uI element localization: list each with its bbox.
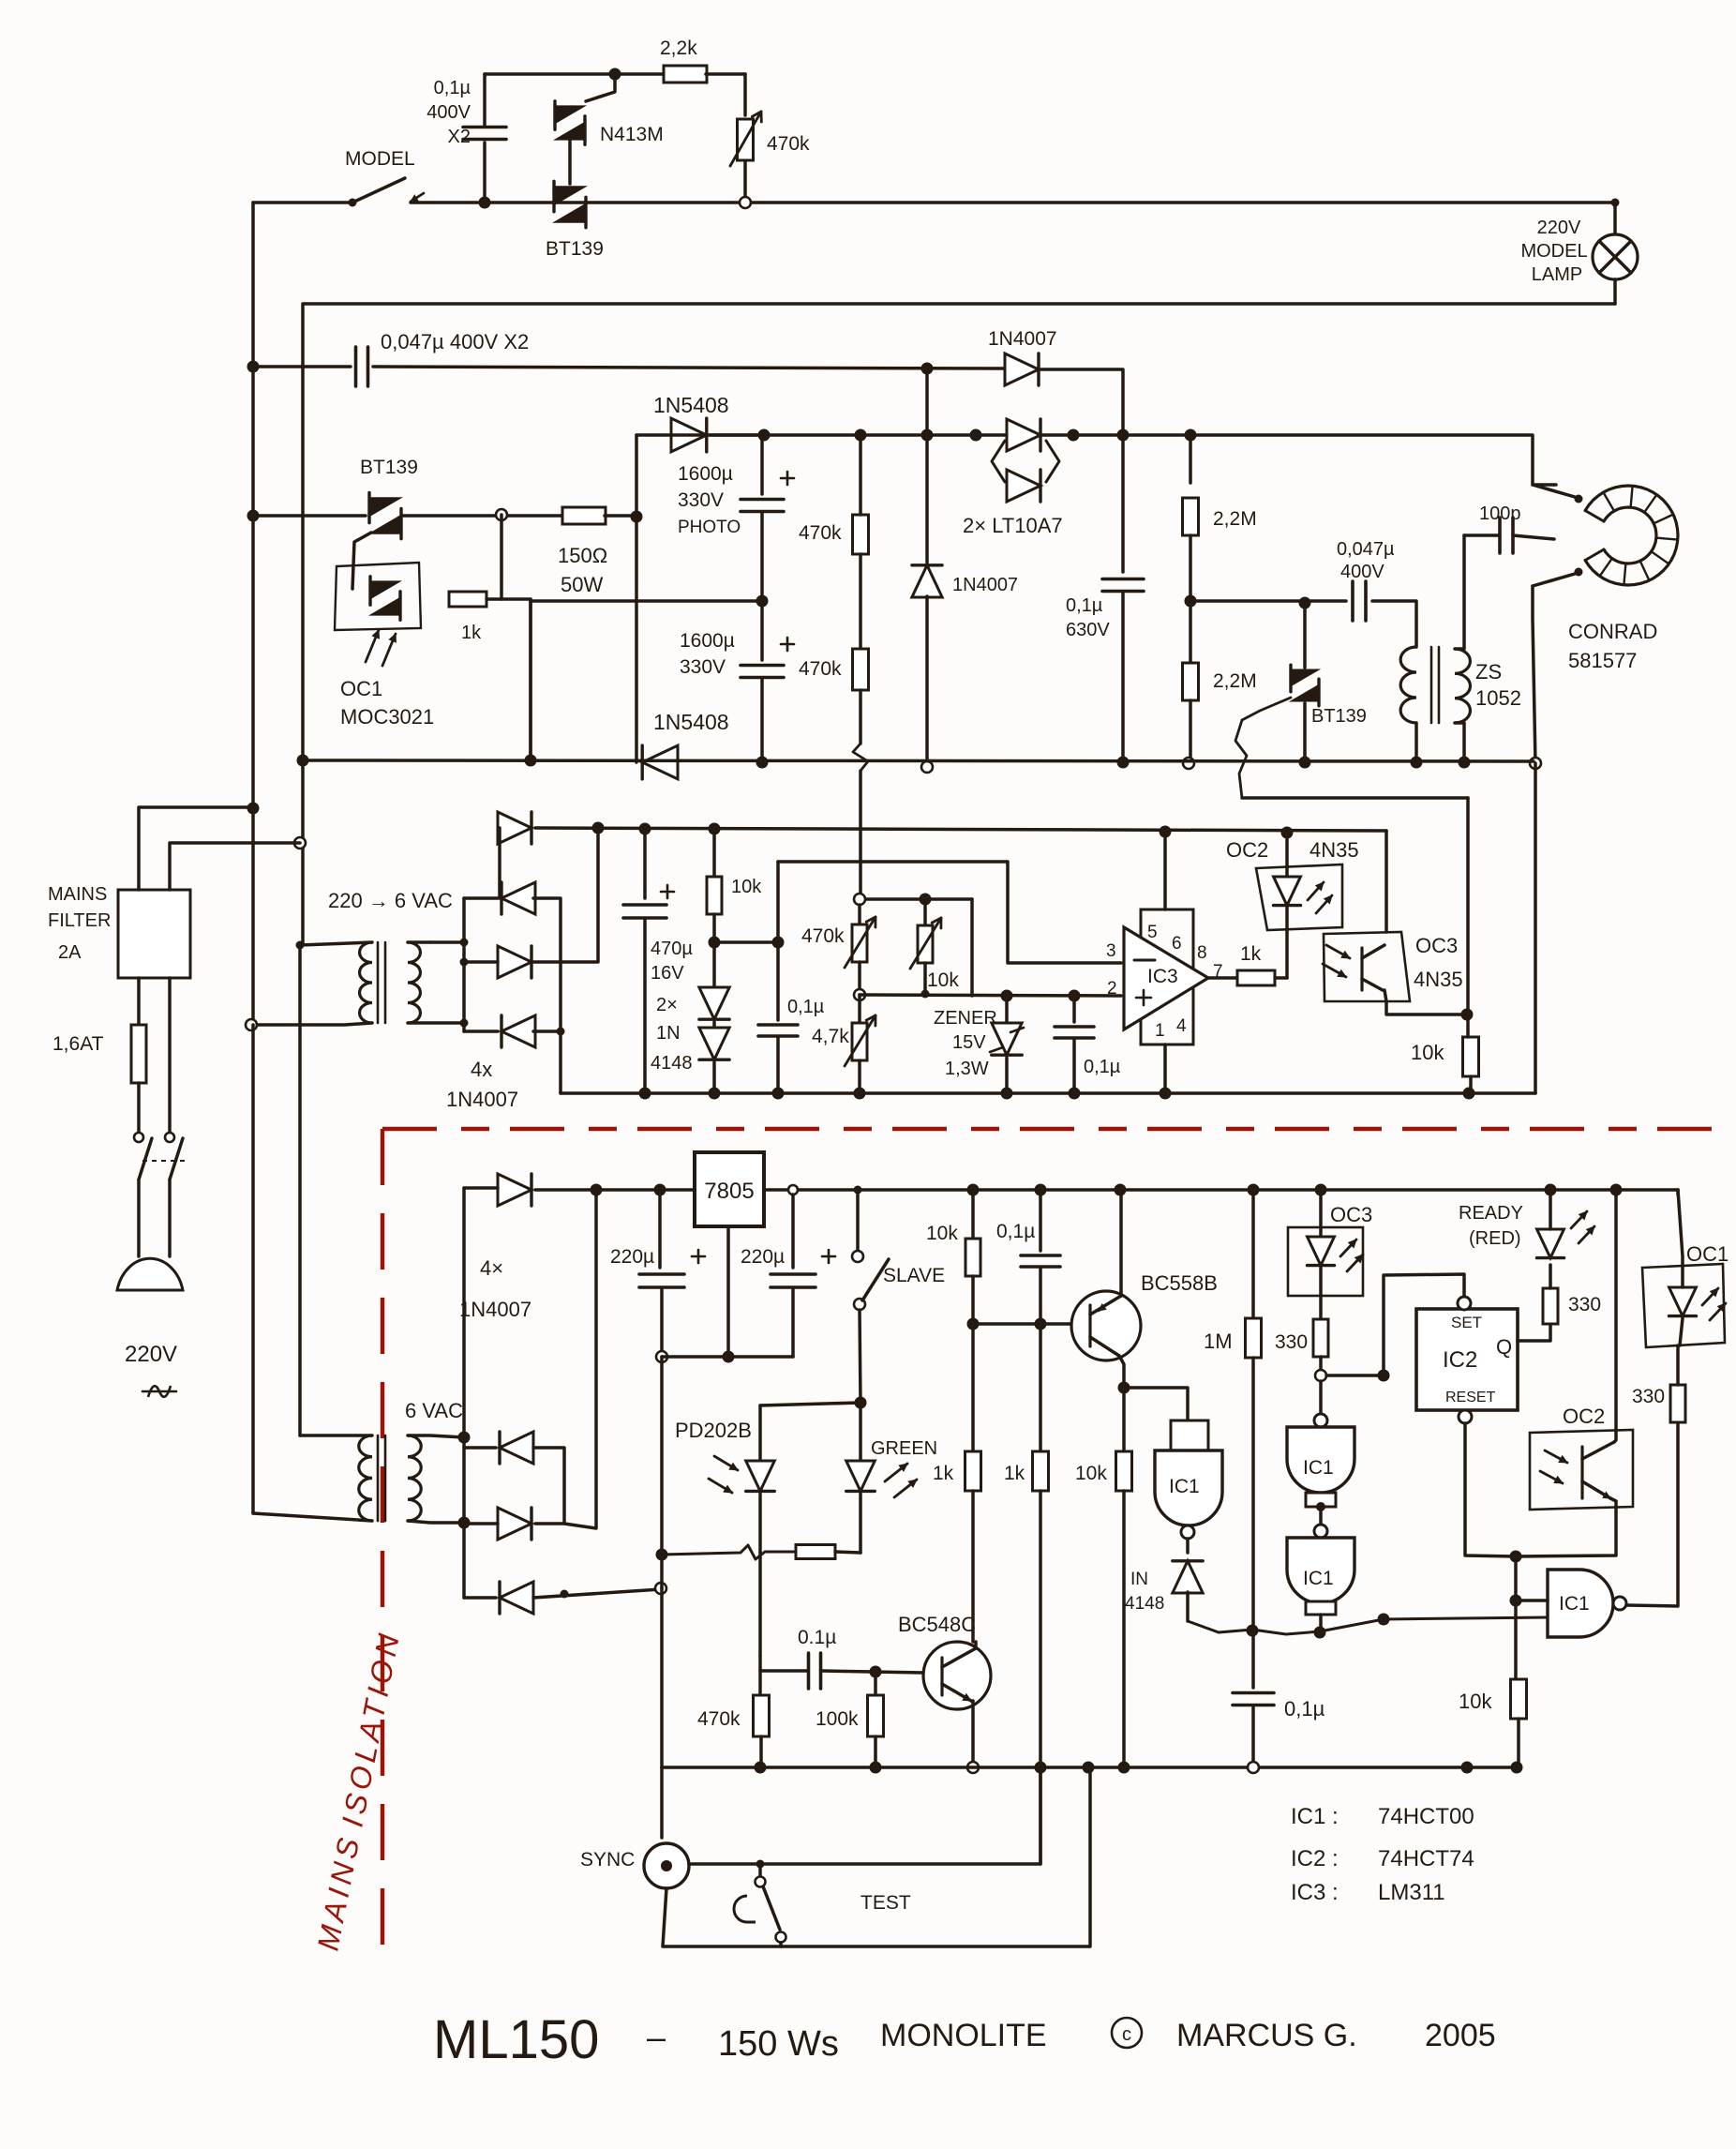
svg-text:630V: 630V	[1066, 620, 1110, 640]
svg-text:OC3: OC3	[1415, 934, 1458, 957]
svg-text:IC1: IC1	[1169, 1476, 1200, 1497]
svg-text:IC1: IC1	[1303, 1568, 1334, 1589]
svg-text:2× LT10A7: 2× LT10A7	[963, 514, 1063, 537]
svg-text:4148: 4148	[1125, 1594, 1164, 1614]
svg-text:X2: X2	[448, 127, 471, 147]
svg-text:1052: 1052	[1475, 686, 1521, 710]
svg-text:MARCUS G.: MARCUS G.	[1176, 2018, 1357, 2053]
svg-text:220V: 220V	[1537, 218, 1581, 238]
svg-text:2,2M: 2,2M	[1213, 670, 1257, 692]
svg-text:Q: Q	[1496, 1335, 1512, 1359]
svg-text:IC3 :: IC3 :	[1291, 1880, 1339, 1905]
svg-text:8: 8	[1197, 943, 1207, 963]
svg-text:330: 330	[1568, 1294, 1601, 1315]
svg-text:IC1: IC1	[1559, 1593, 1590, 1615]
svg-text:1,3W: 1,3W	[945, 1059, 989, 1079]
svg-text:0,1µ: 0,1µ	[1084, 1057, 1121, 1077]
svg-text:470k: 470k	[799, 658, 842, 680]
svg-text:10k: 10k	[927, 969, 959, 991]
svg-text:1N4007: 1N4007	[952, 575, 1018, 595]
svg-text:4: 4	[1176, 1016, 1187, 1036]
svg-text:15V: 15V	[952, 1032, 986, 1053]
svg-text:10k: 10k	[926, 1223, 958, 1244]
svg-text:4x: 4x	[471, 1058, 492, 1081]
svg-text:330: 330	[1632, 1386, 1665, 1407]
svg-text:3: 3	[1106, 941, 1116, 961]
svg-text:150Ω: 150Ω	[558, 544, 607, 567]
svg-text:0,1µ: 0,1µ	[787, 997, 825, 1017]
svg-text:1600µ: 1600µ	[678, 463, 733, 485]
svg-text:10k: 10k	[1075, 1463, 1107, 1484]
svg-text:5: 5	[1147, 923, 1158, 942]
svg-text:BT139: BT139	[1311, 706, 1367, 727]
svg-text:PHOTO: PHOTO	[678, 518, 741, 537]
svg-text:SET: SET	[1451, 1314, 1482, 1331]
svg-text:0.1µ: 0.1µ	[798, 1627, 836, 1648]
svg-text:TEST: TEST	[861, 1892, 911, 1914]
svg-text:10k: 10k	[1459, 1690, 1492, 1713]
svg-text:1N4007: 1N4007	[459, 1298, 531, 1321]
svg-text:581577: 581577	[1568, 649, 1637, 672]
svg-text:MAINS: MAINS	[48, 884, 107, 905]
svg-text:2005: 2005	[1425, 2018, 1496, 2053]
svg-text:c: c	[1122, 2024, 1131, 2045]
svg-text:1N5408: 1N5408	[653, 710, 729, 734]
svg-text:1k: 1k	[461, 623, 482, 643]
svg-text:10k: 10k	[1411, 1041, 1444, 1064]
svg-text:400V: 400V	[1340, 562, 1384, 582]
svg-text:1k: 1k	[933, 1463, 954, 1484]
svg-text:BC558B: BC558B	[1141, 1271, 1218, 1295]
svg-text:220V: 220V	[125, 1342, 177, 1367]
svg-text:ML150: ML150	[433, 2009, 599, 2070]
svg-text:IC3: IC3	[1147, 966, 1178, 987]
svg-text:74HCT74: 74HCT74	[1378, 1846, 1474, 1871]
svg-text:10k: 10k	[731, 877, 762, 897]
svg-text:0,1µ: 0,1µ	[434, 78, 471, 98]
svg-text:470k: 470k	[799, 522, 842, 544]
svg-text:OC3: OC3	[1330, 1203, 1372, 1226]
svg-text:(RED): (RED)	[1469, 1228, 1521, 1249]
svg-text:1k: 1k	[1240, 943, 1262, 965]
svg-text:0,047µ 400V X2: 0,047µ 400V X2	[381, 330, 529, 353]
svg-text:1N4007: 1N4007	[988, 328, 1057, 350]
svg-text:RESET: RESET	[1445, 1390, 1496, 1405]
svg-text:0,1µ: 0,1µ	[1066, 595, 1103, 616]
svg-text:1k: 1k	[1004, 1463, 1025, 1484]
svg-text:220 → 6 VAC: 220 → 6 VAC	[328, 889, 453, 912]
svg-text:2: 2	[1107, 979, 1117, 999]
svg-text:4,7k: 4,7k	[812, 1026, 849, 1047]
svg-text:16V: 16V	[651, 963, 684, 984]
svg-text:4N35: 4N35	[1414, 968, 1463, 991]
svg-text:74HCT00: 74HCT00	[1378, 1804, 1474, 1829]
svg-text:100k: 100k	[816, 1708, 859, 1730]
svg-text:1,6AT: 1,6AT	[52, 1033, 104, 1055]
svg-text:1: 1	[1155, 1021, 1165, 1041]
svg-text:GREEN: GREEN	[871, 1438, 937, 1459]
svg-text:READY: READY	[1459, 1203, 1523, 1224]
svg-text:OC2: OC2	[1563, 1405, 1605, 1428]
svg-text:MOC3021: MOC3021	[340, 705, 434, 729]
svg-text:0,1µ: 0,1µ	[1284, 1697, 1325, 1721]
svg-text:ZS: ZS	[1475, 660, 1502, 684]
svg-text:4×: 4×	[480, 1256, 503, 1280]
svg-text:1M: 1M	[1204, 1330, 1233, 1353]
svg-text:MONOLITE: MONOLITE	[880, 2018, 1047, 2053]
svg-text:–: –	[647, 2018, 666, 2056]
svg-text:2,2k: 2,2k	[660, 38, 697, 59]
svg-text:330V: 330V	[680, 656, 726, 678]
svg-text:BC548C: BC548C	[898, 1613, 976, 1636]
svg-text:470k: 470k	[767, 133, 810, 155]
svg-text:470µ: 470µ	[651, 939, 693, 959]
svg-text:100p: 100p	[1479, 503, 1521, 524]
svg-text:SLAVE: SLAVE	[883, 1265, 945, 1286]
svg-text:4N35: 4N35	[1309, 838, 1359, 862]
svg-text:0,1µ: 0,1µ	[996, 1221, 1035, 1242]
svg-text:150 Ws: 150 Ws	[718, 2024, 839, 2064]
svg-text:ZENER: ZENER	[934, 1008, 997, 1029]
svg-text:N413M: N413M	[600, 124, 664, 145]
svg-text:BT139: BT139	[546, 238, 604, 260]
svg-text:220µ: 220µ	[741, 1246, 785, 1268]
svg-text:PD202B: PD202B	[675, 1419, 752, 1442]
svg-text:MODEL: MODEL	[1520, 241, 1587, 262]
svg-text:470k: 470k	[801, 925, 845, 947]
svg-text:2×: 2×	[656, 995, 678, 1015]
svg-text:IN: IN	[1130, 1570, 1148, 1589]
svg-text:400V: 400V	[427, 102, 471, 123]
svg-text:OC1: OC1	[340, 677, 382, 700]
svg-text:1N5408: 1N5408	[653, 393, 729, 417]
svg-text:4148: 4148	[651, 1053, 693, 1074]
svg-text:330V: 330V	[678, 489, 724, 511]
svg-text:IC1 :: IC1 :	[1291, 1804, 1339, 1829]
svg-text:1600µ: 1600µ	[680, 630, 735, 652]
svg-text:2,2M: 2,2M	[1213, 508, 1257, 530]
svg-text:1N: 1N	[656, 1023, 681, 1044]
svg-text:7805: 7805	[704, 1179, 754, 1204]
svg-text:OC1: OC1	[1686, 1242, 1729, 1266]
svg-text:1N4007: 1N4007	[446, 1088, 518, 1111]
svg-text:LAMP: LAMP	[1532, 264, 1582, 285]
svg-text:0,047µ: 0,047µ	[1337, 539, 1395, 560]
svg-text:IC2 :: IC2 :	[1291, 1846, 1339, 1871]
svg-text:OC2: OC2	[1226, 838, 1268, 862]
svg-text:CONRAD: CONRAD	[1568, 620, 1657, 643]
svg-text:220µ: 220µ	[610, 1246, 654, 1268]
svg-text:SYNC: SYNC	[580, 1849, 635, 1871]
svg-text:6 VAC: 6 VAC	[405, 1399, 463, 1422]
svg-text:BT139: BT139	[360, 457, 418, 478]
svg-text:MODEL: MODEL	[345, 148, 415, 170]
svg-text:330: 330	[1275, 1331, 1308, 1353]
svg-text:IC1: IC1	[1303, 1457, 1334, 1479]
svg-text:FILTER: FILTER	[48, 910, 111, 931]
svg-text:IC2: IC2	[1443, 1347, 1477, 1373]
svg-text:LM311: LM311	[1378, 1880, 1445, 1905]
svg-text:2A: 2A	[58, 942, 82, 963]
svg-text:470k: 470k	[697, 1708, 741, 1730]
svg-text:6: 6	[1172, 934, 1182, 954]
svg-text:50W: 50W	[561, 573, 603, 596]
